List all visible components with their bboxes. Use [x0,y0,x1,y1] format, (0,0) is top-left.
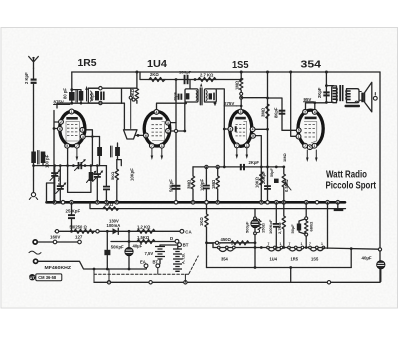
antenna coil secondary [41,152,46,164]
switch dashed link [94,273,190,275]
svg-text:1U4: 1U4 [147,58,167,70]
svg-text:100pF: 100pF [200,178,205,191]
junction dots right of bus end [304,201,308,205]
wire left bus rise [47,183,55,202]
tube V2 inner electrodes [152,125,164,136]
capacitor 100KpF [275,202,277,247]
resistor 150 ohm branch [255,218,261,233]
svg-text:EA: EA [140,260,146,265]
svg-text:7: 7 [309,242,311,246]
svg-text:1: 1 [321,242,323,246]
svg-text:1KΩ: 1KΩ [199,217,204,226]
wire bias row [111,241,175,243]
resistor 1M (AVC) [216,167,219,202]
svg-text:3KΩ: 3KΩ [105,202,114,207]
terminal CA [180,229,184,233]
wire RF grid return line [34,165,107,167]
resistor 3M vertical [266,104,269,119]
wire AVC feed to 354 [241,97,267,99]
junction node osc coil top [70,88,73,91]
svg-text:160V: 160V [50,235,60,240]
resistor 2.7K (screen row) [198,78,216,82]
wire 1R5 pin3 right [82,130,92,137]
capacitor 20KpF [264,185,271,187]
tube V4 filament bar [305,117,317,120]
wire 875V line down [56,103,58,108]
svg-text:500µF: 500µF [244,221,249,233]
svg-text:20KpF: 20KpF [261,171,266,184]
svg-text:680Ω: 680Ω [308,221,313,232]
capacitor 50pF block [274,179,279,183]
wire AVC vertical x176 [175,80,177,203]
junction dots on grid line [70,102,73,105]
wire 10K feed from bus [136,72,138,89]
svg-text:5: 5 [252,134,254,138]
wire AF line y167 [193,166,284,168]
capacitor 25KpF from bus [71,202,73,231]
svg-text:1S5: 1S5 [232,59,249,71]
tube V4 354 envelope [298,110,323,147]
wire 95V node to 354 plate pins [306,103,327,112]
resistor 1.2K [137,229,155,233]
tube V3 inner electrodes [236,125,247,136]
wire right frame [379,72,381,282]
antenna coil primary [31,152,36,164]
terminal D [175,239,179,243]
svg-text:1U4: 1U4 [270,256,278,261]
svg-text:7: 7 [76,144,78,148]
svg-text:5: 5 [309,146,311,150]
filament arrows 1S5 [236,145,238,155]
filament supply wire [213,247,323,249]
capacitor 2KpF series (detector) [240,164,242,170]
tuning arrow 1 [50,171,60,181]
wire IF2 to 1S5 grid feed [216,89,224,167]
terminal BT right [178,243,182,247]
oscillator loop wiring [68,166,91,193]
capacitor 50KpF (bias) [106,231,108,269]
svg-text:2KpF: 2KpF [317,87,322,98]
svg-text:25 KpF: 25 KpF [66,209,81,214]
volume pot 0.5M [282,167,285,202]
svg-text:50µF: 50µF [290,224,295,234]
svg-text:6: 6 [145,134,147,138]
capacitor 50KpF on AVC line [172,185,181,187]
wire rectifier row [55,230,180,232]
svg-text:1MΩ: 1MΩ [234,80,239,90]
oscillator coil second winding [72,90,81,91]
filament socket 1S5 [310,248,323,252]
wire 354 screen from bus [291,72,299,136]
wire 1S5 right pins [253,128,268,130]
terminal BT battery [156,264,160,268]
resistor 5K osc [115,160,118,203]
svg-text:1: 1 [314,144,316,148]
electrolytic 500uF [254,209,256,248]
svg-text:7: 7 [268,242,270,246]
wire coupling to 354 grid [282,129,299,131]
svg-text:BT: BT [153,260,159,265]
wire 1R5 upper-left pin [54,111,61,129]
svg-text:6: 6 [298,129,300,133]
resistor 1K filament dropper [205,202,208,267]
capacitor 2KpF (tone) [323,91,329,93]
svg-text:1,5KΩ: 1,5KΩ [137,235,150,240]
svg-text:1S5: 1S5 [311,256,319,261]
wire 354 grid feed from bus [267,72,269,202]
svg-text:127: 127 [75,235,83,240]
svg-text:3: 3 [167,121,169,125]
RF coil box (1R5 grid) [88,88,101,103]
antenna connector [31,193,35,197]
IF T2 core [200,88,202,105]
junction 275V node [240,105,243,108]
filament arrow 1R5 [76,146,78,157]
svg-text:50KpF: 50KpF [111,245,124,250]
output transformer secondary [347,89,360,103]
resistor 2.7K (filament) [282,202,285,247]
tuning gang section 2 [59,166,61,185]
resistor 2K (screen row) [149,78,165,82]
tuning arrow 2 [56,184,65,194]
wire to coupling cap [268,98,283,130]
heavy chassis bus [47,201,346,204]
RF trimmer on return line [78,162,80,169]
svg-text:3: 3 [81,128,83,132]
svg-text:450Ω: 450Ω [221,237,232,242]
svg-text:7: 7 [151,144,153,148]
svg-text:50pF: 50pF [270,167,274,177]
svg-text:UT: UT [30,275,36,280]
wire speaker leads [359,92,361,101]
padder capacitor [105,166,107,186]
wire shield to 1U4 grid pin [136,134,146,136]
svg-text:8KpF: 8KpF [274,107,279,118]
wire 1R5 left pin [54,129,60,203]
resistor 3K [103,207,119,211]
wire IF1 secondary drop [130,88,132,128]
svg-text:10KpF: 10KpF [130,168,135,181]
svg-text:2 KpF: 2 KpF [24,72,29,84]
IF T2 tuning arrow [200,83,202,87]
oscillator coil core [76,91,77,103]
antenna lead wire [33,68,35,78]
tube V4 pins [303,110,308,115]
wire grid line corner down to shield [123,103,125,130]
svg-text:40pF: 40pF [91,91,95,101]
svg-text:50KpF: 50KpF [169,179,174,192]
svg-text:1: 1 [301,242,303,246]
svg-text:2KΩ: 2KΩ [150,72,159,77]
svg-text:4: 4 [156,110,158,114]
svg-text:1R5: 1R5 [78,57,97,69]
svg-text:1: 1 [231,242,233,246]
oscillator trimmer block [89,172,94,181]
IF T2 secondary winding [209,93,212,99]
svg-text:50/250 Ω: 50/250 Ω [70,224,88,229]
junction dots screen row [175,78,178,81]
svg-text:2: 2 [167,129,169,133]
battery ATB [177,247,179,249]
oscillator grid coil winding [69,92,75,101]
svg-text:1MΩ: 1MΩ [211,179,216,189]
svg-text:275V: 275V [224,101,234,106]
svg-text:CA: CA [185,229,192,234]
svg-text:6: 6 [229,127,231,131]
wire screen row top [140,72,241,80]
ground symbol [337,202,339,208]
filament socket 1U4 [268,248,281,252]
wire osc coil to 875V line [71,90,73,104]
RF trimmer cap [100,92,102,101]
tube V2 pins [154,110,159,115]
filament socket 354 [219,248,234,252]
wire 40uF to bottom frame [380,269,382,282]
svg-text:D: D [170,236,173,241]
filament socket 1R5 [289,248,302,252]
voltage tap 127 [78,240,82,244]
svg-text:1MΩ: 1MΩ [282,152,287,162]
svg-text:1: 1 [280,242,282,246]
tube V3 pins [238,109,243,114]
tube V2 1U4 envelope [144,112,170,146]
IF transformer T2 left box [185,89,198,102]
svg-text:3: 3 [298,135,300,139]
svg-text:A.T.B.: A.T.B. [181,253,186,264]
svg-text:3MΩ: 3MΩ [186,179,191,189]
resistor 10K vertical [135,89,138,104]
svg-text:95V: 95V [304,97,312,102]
wire antenna cap to coil [33,84,35,151]
battery 7.5V filament [160,245,178,264]
maker logo box CM 36-58 [36,274,62,281]
resistor 680 ohm [305,220,308,233]
svg-text:3MΩ: 3MΩ [261,107,266,117]
svg-text:7,5V: 7,5V [145,251,154,256]
svg-text:1: 1 [71,110,73,114]
wire IF2 primary bottom to plate junction [184,103,186,131]
wire IF2 feed [189,80,191,89]
svg-text:3: 3 [240,110,242,114]
pot wiper arrow [285,183,291,191]
svg-text:150Ω: 150Ω [260,222,265,233]
svg-text:7: 7 [304,144,306,148]
AC symbol [29,251,41,254]
wire 1R5 bottom pins down [67,146,69,166]
tuning gang section 1 [54,166,56,172]
speaker voice coil bar [361,93,364,103]
osc tuning cap [96,166,98,173]
svg-text:7: 7 [236,144,238,148]
wire bus left end down to osc coil [71,72,73,90]
filament arrows 354 [306,150,308,158]
svg-text:BT: BT [183,243,189,248]
wire 450 ohm row [207,242,256,244]
svg-text:40µF: 40µF [133,244,143,249]
osc tuning arrow [93,172,102,182]
tuning arrow up (osc) [86,89,88,101]
svg-text:0.5MΩ: 0.5MΩ [284,179,289,192]
wire output transformer primary feed [325,72,327,102]
svg-text:Watt Radio: Watt Radio [326,170,367,181]
resistor 1M (1S5 grid) [240,72,243,112]
grid shield funnel [124,130,138,139]
svg-text:80 pF: 80 pF [63,88,68,99]
capacitor 100pF [205,167,207,202]
IF T2 primary winding [186,93,190,99]
osc windings core [111,146,113,157]
antenna coil core [38,151,39,165]
electrolytic 50uF with 680 ohm box [305,202,307,247]
wire bottom junctions [107,281,110,284]
output transformer primary [332,86,337,103]
IF transformer T2 right box [205,89,217,102]
IF T2 trimmer cap left [178,94,180,100]
svg-text:10KΩ: 10KΩ [254,176,259,188]
tube V1 inner electrodes [66,122,79,142]
resistor 10K [260,172,263,185]
svg-text:2KpF: 2KpF [249,160,260,165]
osc feedback winding 2 [115,147,120,156]
svg-text:2.7 KΩ: 2.7 KΩ [200,73,214,78]
svg-text:40pF: 40pF [173,91,177,101]
svg-text:100mA: 100mA [107,223,121,228]
IF T2 trimmer cap right [213,93,215,101]
wire bottom frame [94,281,380,283]
antenna symbol [29,57,39,69]
svg-text:2: 2 [304,110,306,114]
svg-text:7: 7 [289,242,291,246]
wire EA BT stubs [147,268,158,275]
wire 1S5 grid tap [224,128,230,130]
filament arrows 1U4 [151,146,153,156]
rectifier diode 130V 100mA [113,228,119,234]
speaker magnet [373,96,377,100]
wire vert x121 [121,88,123,103]
svg-text:1,2 KΩ: 1,2 KΩ [137,225,151,230]
electrolytic 40uF right [377,261,385,269]
transformer base shadow [345,105,361,107]
wire output stage filament drop [327,202,329,248]
antenna series capacitor 2KpF [31,79,37,81]
svg-text:100KpF: 100KpF [268,219,273,234]
svg-text:10KpF: 10KpF [179,70,192,75]
wire coil down to connector [34,163,44,192]
voltage tap 160V [53,240,57,244]
output transformer core [339,85,341,101]
wire grid line y103 [57,102,124,104]
svg-text:CM 36-58: CM 36-58 [38,275,57,280]
svg-text:1: 1 [246,144,248,148]
svg-text:5: 5 [66,144,68,148]
svg-text:1R5: 1R5 [291,256,299,261]
tube V3 1S5 envelope [230,111,252,147]
junction dots on grid return [32,164,35,167]
svg-text:2,7KΩ: 2,7KΩ [277,222,282,234]
osc feedback winding 1 [99,137,101,148]
wire top B+ bus [72,71,380,73]
wire socket row to frame [323,248,380,249]
wire 1U4 plate to IF2 [157,102,186,112]
svg-text:354: 354 [221,256,229,261]
mains plug pin 1 [33,240,37,244]
svg-text:1: 1 [161,144,163,148]
resistor 3M (diode load) [191,167,194,202]
svg-text:6: 6 [59,127,61,131]
wire 1R5 osc anode down [83,137,100,166]
tube V3 filament bar [235,117,246,120]
mains plug pin 2 [34,259,38,263]
svg-text:2: 2 [60,120,62,124]
wire drop to bottom frame [290,268,292,283]
maker logo roundel [29,274,35,280]
svg-text:4: 4 [252,128,254,132]
wire filament return drop [350,249,352,268]
wire 500uF node drop [254,248,256,268]
svg-text:40µF: 40µF [362,256,372,261]
wire IF2 bottom taps [184,102,187,105]
svg-text:7: 7 [219,242,221,246]
capacitor 10KpF (screen row) [184,75,186,84]
junction dot [266,97,269,100]
electrolytic 40uF left [128,231,130,269]
wire 1U4 right pins to AVC line [168,123,185,131]
svg-text:4: 4 [314,110,316,114]
wire filament return line [207,267,352,269]
speaker cone [365,82,372,112]
svg-text:Piccolo Sport: Piccolo Sport [326,181,377,192]
wires cap to transformer [326,86,333,103]
junction circles on chassis bus [53,201,57,205]
tube V1 pins [69,109,74,114]
terminal EA [144,264,148,268]
RF coil winding dark [95,91,99,100]
svg-text:4: 4 [82,135,84,139]
svg-text:354: 354 [301,59,322,71]
junction dots on top bus [135,71,138,74]
junction circles on AF line [205,165,208,168]
wire coil box top feed [88,87,137,89]
tube V2 filament bar [151,117,163,120]
svg-text:MF460KHZ: MF460KHZ [45,265,72,270]
tube V1 1R5 envelope [60,111,85,146]
resistor 1.5K [137,240,155,244]
tube V1 filament bar [66,117,78,120]
thin return line below bus [90,202,346,208]
capacitor 8KpF [279,110,286,112]
svg-text:5KΩ: 5KΩ [110,171,115,180]
tube V4 inner electrodes [305,124,318,137]
resistor 50/250 ohm [74,229,94,233]
resistor 450 ohm [231,241,249,245]
